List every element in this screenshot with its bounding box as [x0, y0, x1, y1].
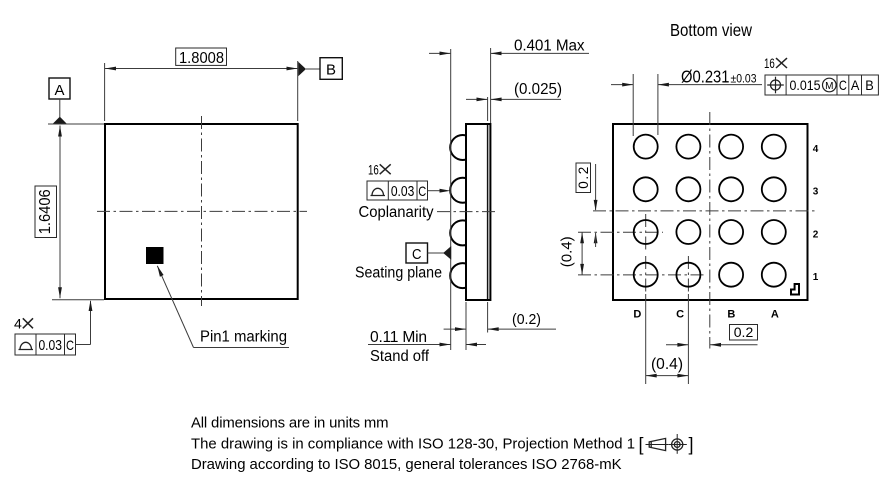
svg-text:0.03: 0.03 — [38, 338, 62, 354]
svg-text:A: A — [55, 82, 65, 99]
svg-text:D: D — [633, 309, 641, 321]
svg-text:1.6406: 1.6406 — [37, 189, 54, 234]
svg-text:The drawing is in compliance w: The drawing is in compliance with ISO 12… — [191, 437, 635, 453]
svg-text:(0.4): (0.4) — [651, 356, 683, 373]
svg-text:]: ] — [689, 435, 694, 455]
svg-text:0.11 Min: 0.11 Min — [370, 329, 427, 346]
svg-text:A: A — [771, 309, 779, 321]
svg-text:C: C — [418, 183, 426, 199]
svg-text:Ø0.231: Ø0.231 — [681, 67, 730, 87]
svg-text:Bottom view: Bottom view — [670, 20, 752, 40]
svg-text:1.8008: 1.8008 — [179, 50, 224, 67]
svg-text:0.03: 0.03 — [391, 184, 415, 200]
svg-text:All dimensions are in units mm: All dimensions are in units mm — [191, 416, 389, 432]
svg-text:(0.4): (0.4) — [559, 236, 576, 267]
svg-text:(0.025): (0.025) — [514, 81, 562, 98]
svg-text:B: B — [727, 309, 735, 321]
svg-text:Seating plane: Seating plane — [355, 264, 442, 281]
svg-text:1: 1 — [813, 272, 819, 283]
svg-text:M: M — [825, 81, 833, 92]
svg-text:Drawing according to ISO 8015,: Drawing according to ISO 8015, general t… — [191, 457, 622, 473]
svg-text:C: C — [676, 309, 684, 321]
svg-text:4: 4 — [813, 144, 819, 155]
svg-text:16: 16 — [368, 162, 379, 177]
svg-text:A: A — [851, 77, 860, 93]
svg-text:(0.2): (0.2) — [512, 311, 541, 328]
svg-text:0.015: 0.015 — [790, 78, 821, 94]
svg-text:4: 4 — [14, 316, 22, 332]
svg-text:±0.03: ±0.03 — [731, 72, 757, 86]
svg-text:2: 2 — [813, 229, 819, 240]
svg-text:0.2: 0.2 — [734, 324, 754, 340]
svg-text:Stand off: Stand off — [370, 348, 430, 365]
svg-text:0.401 Max: 0.401 Max — [514, 37, 585, 54]
svg-text:B: B — [326, 62, 336, 79]
svg-text:[: [ — [639, 435, 644, 455]
svg-text:16: 16 — [764, 56, 775, 71]
svg-text:C: C — [66, 337, 74, 353]
svg-text:0.2: 0.2 — [576, 167, 591, 189]
svg-text:C: C — [412, 247, 422, 263]
svg-text:C: C — [839, 77, 847, 93]
svg-text:Pin1 marking: Pin1 marking — [200, 328, 287, 345]
svg-text:3: 3 — [813, 187, 819, 198]
svg-text:B: B — [865, 77, 874, 93]
svg-text:Coplanarity: Coplanarity — [359, 204, 434, 221]
